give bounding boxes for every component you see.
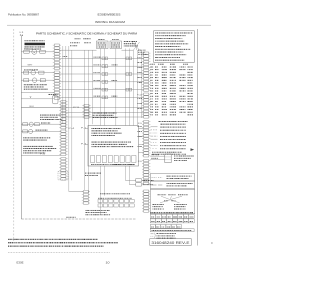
- splice left caption: [153, 203, 155, 206]
- line legend heading 2: [161, 123, 163, 126]
- diagram left cut dashed border: [13, 29, 15, 241]
- line legend heading 1: [159, 120, 161, 123]
- line break note line 3: [70, 44, 71, 47]
- page edge mark: [211, 242, 212, 243]
- relay output wire to splice: [122, 49, 134, 51]
- keypad row 1 labels: [97, 197, 100, 200]
- board text block 2 line 2: [92, 143, 93, 146]
- power cord splice diagonals: [132, 42, 140, 50]
- distribution wire row 3: [60, 73, 144, 75]
- relay K2 top label: [112, 38, 113, 41]
- cooling fan label: [41, 122, 42, 125]
- line break note line 2: [70, 41, 71, 44]
- strip wire labels lower: [138, 125, 139, 128]
- plug pair row 1: [102, 57, 105, 60]
- terminal block caption: [174, 155, 175, 158]
- bus wire C1: [84, 50, 86, 190]
- probe label 2: [143, 183, 144, 186]
- fan motor M1: [32, 49, 37, 54]
- revision table row 3 cells: [150, 225, 155, 229]
- oven note line 2: [40, 116, 42, 119]
- wire upper neutral branch: [21, 57, 54, 59]
- svg-text:P-4: P-4: [68, 128, 74, 130]
- plug pair B row 3: [126, 73, 129, 76]
- board relay pads: [91, 156, 95, 163]
- diagram right border line: [197, 29, 199, 246]
- left note A line 1: [23, 136, 24, 139]
- board text block 1 line 1: [91, 127, 94, 130]
- distribution wire row 4: [60, 81, 144, 83]
- bus wire C11: [140, 50, 142, 118]
- svg-text:E30EW85ESS: E30EW85ESS: [98, 12, 121, 16]
- wire oven light: [21, 107, 61, 109]
- probe wire row 1: [125, 179, 136, 181]
- connector strip J6: [84, 105, 89, 107]
- plug pair row 4: [102, 80, 105, 83]
- main harness connector strip P1 bottom: [144, 160, 149, 162]
- connector strip J3: [61, 101, 66, 103]
- gauge sample line 2: [152, 184, 157, 186]
- relay K1 top label: [97, 38, 100, 41]
- terminal sample wire 1 label: [150, 153, 153, 156]
- relay note line 1: [124, 40, 125, 43]
- board text block 1 line 4: [91, 134, 94, 137]
- bus wire C9: [132, 50, 134, 126]
- board to strip wire 4: [139, 152, 144, 154]
- terminal sample wire 1: [150, 155, 165, 157]
- bus wire C2: [88, 50, 90, 193]
- latch switch box: [24, 71, 29, 74]
- board underside caption: [112, 163, 113, 166]
- gauge caption 2: [167, 182, 168, 185]
- gauge legend box 1: [150, 174, 195, 181]
- line break note label B: [82, 37, 85, 40]
- bus wire B3: [68, 46, 70, 192]
- oven control text line 1: [93, 112, 94, 115]
- wire neutral: [21, 65, 54, 67]
- terminal sample heading 2: [152, 151, 153, 154]
- board left stub 2: [85, 144, 88, 146]
- terminal block box: [165, 154, 171, 163]
- wire row 5 label: [93, 87, 96, 90]
- splice tree lines: [161, 196, 182, 199]
- wire to lock motor: [21, 79, 54, 81]
- terminal box WHT: [40, 50, 45, 53]
- board to strip wire 3: [139, 144, 144, 146]
- board to strip wire 2: [139, 136, 144, 138]
- header rule: [7, 24, 211, 26]
- wire row 2 label: [94, 64, 95, 67]
- wire lower left: [21, 98, 52, 100]
- relay note line 3: [123, 45, 126, 48]
- keypad header labels: [100, 192, 102, 195]
- svg-text:P-4: P-4: [40, 153, 45, 155]
- wire row 6 label: [93, 95, 96, 98]
- door lock note line 2: [24, 86, 25, 89]
- svg-text:P7-B: P7-B: [73, 107, 79, 109]
- double line break relay K1 box: [97, 41, 109, 49]
- gauge sample line 2b: [158, 184, 162, 186]
- plug pair row 5: [102, 88, 105, 91]
- line legend arrow symbol: [191, 148, 195, 151]
- probe jack box 1: [136, 179, 142, 182]
- cooling fan box 2: [35, 123, 40, 126]
- oven note line 1: [40, 114, 41, 117]
- plug pair B row 5: [126, 88, 129, 91]
- board text block 2 line 1: [92, 141, 93, 144]
- svg-text:M: M: [33, 52, 35, 54]
- connector strip J5: [61, 158, 66, 160]
- terminal box BLK: [24, 50, 29, 53]
- wire mid row 1: [21, 107, 143, 109]
- left note B line 3: [23, 149, 24, 152]
- wire mid row 2: [61, 111, 143, 113]
- wire row 4 right label: [112, 79, 113, 82]
- wire to keypad connector: [69, 191, 84, 193]
- bus wire B2: [65, 46, 67, 131]
- connector strip J1: [54, 44, 59, 46]
- keypad grid: [98, 199, 102, 202]
- oven control text line 2: [93, 114, 94, 117]
- distribution wire row 6: [60, 96, 144, 98]
- gauge sample line 1b: [158, 177, 162, 179]
- wire row 2 right label: [112, 64, 113, 67]
- svg-text:316048240 REV-E: 316048240 REV-E: [151, 241, 189, 245]
- probe wire row 2: [129, 184, 136, 186]
- relay K2 text: [111, 42, 112, 45]
- revision table row 2 cells: [150, 219, 156, 223]
- legend notes box: [154, 31, 195, 63]
- svg-text:P-3: P-3: [81, 144, 86, 146]
- terminal sample wire 2 label: [150, 157, 153, 160]
- board to strip wire 1: [139, 128, 144, 130]
- svg-text:P-12: P-12: [137, 95, 142, 97]
- shield dashed box: [58, 172, 68, 180]
- splice tree top labels: [158, 193, 159, 196]
- relay feed wire: [60, 49, 97, 51]
- splice branch lines: [160, 200, 180, 203]
- plug pair row 2: [102, 65, 105, 68]
- cooling fan switch box: [23, 123, 28, 126]
- probe jack box 2: [136, 183, 142, 186]
- bus wire C8: [128, 49, 130, 126]
- latch label: [23, 68, 26, 71]
- svg-text:10: 10: [106, 260, 111, 264]
- splice tiny caption: [138, 49, 140, 52]
- oven note line 3: [39, 118, 42, 121]
- lock switch box 2: [40, 79, 45, 82]
- door latch motor M2: [31, 70, 36, 75]
- svg-text:WIRING DIAGRAM: WIRING DIAGRAM: [95, 20, 125, 24]
- lower label block 1: [84, 172, 87, 175]
- strip wire labels upper: [138, 56, 139, 59]
- latch switch box 2: [39, 71, 44, 74]
- bottom note line 2: [86, 211, 88, 214]
- bus wire C5: [104, 49, 106, 126]
- gauge caption 1: [167, 175, 168, 178]
- bottom note line 3: [85, 213, 88, 216]
- wire code table: [149, 63, 152, 66]
- connector strip J7: [83, 191, 88, 193]
- terminal sample wire 2: [150, 159, 165, 161]
- revision note row: [150, 229, 194, 232]
- wire row 1 label: [94, 56, 95, 59]
- bus wire C10: [136, 50, 138, 126]
- bus wire C7: [124, 49, 126, 126]
- door lock note line 3: [24, 88, 25, 91]
- bus wire C6: [115, 49, 117, 126]
- node BLK label: [63, 55, 64, 58]
- schematic bottom border: [21, 218, 136, 220]
- left note B line 1: [22, 145, 25, 148]
- splice node labels: [164, 199, 165, 202]
- plug pair B row 1: [126, 57, 129, 60]
- bus wire B4: [71, 50, 73, 180]
- distribution wire row 1: [60, 57, 144, 59]
- revision table header strip: [151, 211, 152, 214]
- svg-text:Publication No. 09938867: Publication No. 09938867: [8, 12, 39, 16]
- line break note label C: [83, 41, 86, 44]
- caution note line 2: [8, 242, 9, 243]
- splice right caption: [174, 203, 175, 206]
- bottom note line 1: [86, 209, 87, 212]
- bus wire C3: [92, 50, 94, 124]
- terminal sample heading: [151, 153, 154, 156]
- left note B line 2: [23, 147, 24, 150]
- board text block 1 line 3: [91, 132, 94, 135]
- wire convection: [21, 130, 61, 132]
- caution note line 1: [7, 239, 10, 240]
- surface unit caption line 1: [25, 45, 26, 48]
- svg-text:PARTS SCHEMATIC // SCHEMATIC D: PARTS SCHEMATIC // SCHEMATIC DE NORMA //…: [36, 31, 137, 35]
- main harness connector strip P1 mid: [144, 93, 149, 95]
- cooling fan motor M4: [29, 122, 33, 126]
- main harness connector strip P1 keypad: [144, 190, 149, 192]
- wire row 6 right label: [111, 95, 114, 98]
- wire to door latch motor: [21, 72, 54, 74]
- relay K1 text: [98, 42, 100, 45]
- board text block 1 line 2: [92, 129, 93, 132]
- convection motor M5: [29, 129, 33, 133]
- connector strip J2: [54, 71, 59, 73]
- part number box: [150, 239, 191, 246]
- lock switch box: [24, 79, 29, 82]
- wire row 3 label: [93, 71, 96, 74]
- left note B line 4: [22, 152, 25, 155]
- oven control text line 3: [93, 116, 95, 119]
- wire bottom left bus: [21, 154, 61, 156]
- distribution wire row 2: [60, 65, 144, 67]
- bus wire C4: [100, 49, 102, 126]
- wire cooling fan: [21, 123, 61, 125]
- gauge sample line 1: [152, 177, 157, 179]
- strip wire labels mid: [137, 97, 140, 100]
- svg-text:E30E: E30E: [17, 260, 24, 264]
- lower label block 2: [85, 174, 86, 177]
- thermal switch body: [52, 96, 58, 104]
- splice tree outer box: [150, 189, 195, 214]
- probe label 1: [143, 179, 144, 182]
- mini legend text: [157, 232, 159, 235]
- distribution wire row 5: [60, 89, 144, 91]
- gauge legend box 2: [150, 181, 195, 189]
- wire spark: [21, 92, 54, 94]
- revision table row 1 cells: [150, 214, 156, 218]
- lock motor M3: [32, 78, 37, 83]
- board pad labels: [91, 163, 93, 166]
- bus wire B1: [62, 46, 64, 124]
- surface unit header caption above: [25, 39, 26, 42]
- bottom border label: [65, 216, 68, 219]
- surface unit header black bar: [25, 43, 46, 46]
- wire row 4 label: [94, 79, 95, 82]
- double line break relay K2 box: [110, 41, 122, 49]
- mini legend brace: [154, 233, 157, 238]
- notes separator dotted rule: [8, 251, 110, 253]
- svg-text:WHT: WHT: [28, 64, 33, 66]
- line type samples: [151, 126, 158, 128]
- line break note label A: [75, 37, 76, 40]
- relay note line 2: [124, 42, 126, 45]
- svg-text:P-9: P-9: [138, 123, 142, 125]
- board left stub 1: [85, 128, 88, 130]
- legend notes text: [154, 32, 157, 35]
- board text block 2 line 3: [92, 145, 93, 148]
- left note A line 2: [23, 139, 25, 142]
- thermal switch label: [49, 93, 51, 96]
- connector strip J4: [61, 130, 66, 132]
- surface unit caption line 2: [24, 48, 27, 51]
- main harness connector strip P1 upper: [144, 52, 149, 54]
- mini legend marks: [151, 233, 154, 235]
- main harness connector strip P1 lower: [144, 121, 149, 123]
- oven control board box U1: [88, 126, 139, 167]
- svg-text:L1: L1: [20, 32, 24, 34]
- caution note line 3: [8, 246, 9, 247]
- wire mid row 3: [61, 116, 143, 118]
- plug pair row 6: [102, 96, 105, 99]
- convection label: [36, 129, 37, 132]
- plug pair row 3: [102, 73, 105, 76]
- L1 supply bus wire: [20, 36, 22, 219]
- wire to fan motor: [21, 51, 54, 53]
- door lock note line 1: [24, 83, 25, 86]
- convection box: [23, 130, 28, 133]
